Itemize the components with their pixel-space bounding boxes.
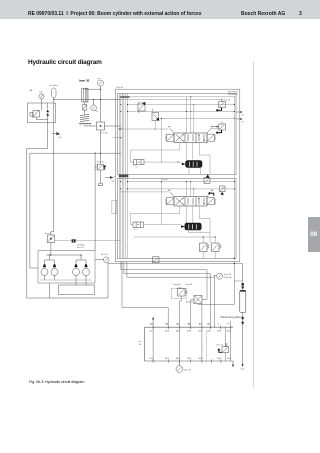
tank header line (108, 263, 243, 265)
check valve CV2 (152, 109, 159, 121)
svg-text:Proj 06: Proj 06 (116, 86, 124, 89)
pump 2 (51, 260, 58, 280)
gauge feed line (85, 88, 101, 90)
directional valve V3 (174, 197, 207, 207)
svg-text:T: T (218, 324, 220, 326)
svg-text:Item 30: Item 30 (79, 79, 90, 83)
svg-text:50%: 50% (187, 331, 191, 333)
Proj 06 tag box (229, 91, 238, 95)
oil drain arrow (235, 281, 245, 290)
V1 right operator (207, 134, 216, 141)
tank arrow right (232, 361, 234, 367)
branch line A section1 (128, 104, 235, 106)
check valve CV1 (138, 102, 146, 113)
port arrows right edge (236, 111, 244, 122)
pump inner rail (46, 254, 82, 255)
branch line B section1 (128, 111, 235, 113)
LS drop line sec2 (161, 182, 163, 225)
V3 pilot lines (168, 190, 213, 197)
pump valve inside power box (30, 103, 48, 120)
link E2 to V4 (144, 224, 182, 226)
return line left (30, 153, 38, 268)
orifice block E2 (133, 222, 144, 230)
V1 pilot lines (168, 126, 213, 133)
chapter tab 06 (308, 217, 320, 252)
branch line A section2 (128, 181, 235, 183)
level indicator circle (91, 100, 99, 112)
svg-text:pm: pm (98, 78, 101, 80)
gauge K (214, 273, 232, 279)
figure right rule (252, 62, 254, 389)
svg-text:Item 25: Item 25 (101, 253, 109, 256)
feed drop to valve V1 (185, 97, 187, 133)
svg-text:4a: 4a (30, 89, 33, 92)
pm gauge (98, 78, 104, 119)
standby relief valve R5 (95, 153, 106, 185)
svg-text:Proj 06: Proj 06 (101, 132, 109, 135)
P rail2 section1 (119, 99, 223, 100)
isolator plate (186, 296, 202, 304)
right drop to manifold (198, 262, 234, 305)
svg-text:Item 40: Item 40 (174, 283, 182, 286)
feed drop to valve V3 (185, 182, 187, 197)
V3 right operator (207, 198, 216, 205)
bottom relief valve (217, 343, 229, 353)
junction dots (53, 89, 235, 260)
svg-text:Item 30: Item 30 (224, 273, 232, 276)
brake valve H (212, 237, 222, 259)
svg-text:Item 35: Item 35 (97, 160, 105, 163)
brake valve G (200, 237, 210, 259)
V3 left operator (165, 198, 174, 205)
drain line (84, 125, 121, 127)
pump pair shafts (45, 255, 87, 260)
svg-text:50%: 50% (207, 331, 211, 333)
LS drop line (161, 118, 163, 163)
flow arrow marker (52, 132, 62, 138)
port link lines sec1 (130, 150, 210, 174)
pm line lower (100, 130, 102, 153)
bottom gauge (176, 361, 192, 372)
A-line section2 (134, 236, 215, 238)
svg-text:50: 50 (139, 344, 142, 346)
svg-text:Oil filling: Oil filling (77, 244, 85, 246)
section boundary band (119, 175, 129, 178)
V1 left operator (165, 134, 174, 141)
shutoff valve S1 (97, 119, 109, 135)
bus port band (120, 96, 129, 98)
pilot line section1 (119, 128, 168, 130)
oil filling labels (77, 244, 85, 249)
relief valve RV3 (220, 186, 226, 195)
measuring glass riser (234, 263, 243, 285)
svg-text:Measuring glass: Measuring glass (221, 315, 242, 319)
measuring glass (221, 290, 246, 369)
valve feed drops (155, 97, 194, 133)
V1 port stems (180, 143, 200, 160)
pump 3 (73, 260, 80, 280)
check valve in power box (46, 103, 49, 123)
suction line to pumps (50, 242, 52, 255)
counterbalance valve V4 (181, 223, 210, 233)
drain stubs (50, 280, 87, 298)
up arrow port (152, 317, 154, 327)
pump return riser (95, 153, 96, 251)
link E1 to V2 (144, 161, 182, 163)
svg-text:Oil drain: Oil drain (235, 281, 242, 283)
V3 port stems (180, 206, 200, 223)
lowering valve dashed box (171, 288, 187, 298)
manifold rail (145, 327, 234, 361)
main pressure drop line (51, 123, 54, 236)
right pilot link (211, 127, 220, 129)
pilot line section2 (119, 191, 168, 193)
svg-text:P: P (227, 324, 229, 326)
section 2 box (117, 179, 236, 259)
Item 30 filter (79, 79, 90, 115)
svg-text:50%: 50% (227, 358, 231, 360)
svg-text:Proj 05: Proj 05 (186, 283, 193, 286)
pump 4 (83, 260, 90, 280)
power unit box (28, 103, 56, 123)
pilot supply line (54, 99, 121, 101)
section 1 box (117, 94, 236, 175)
svg-text:p0=10bar: p0=10bar (50, 85, 59, 87)
pressure gauge M1 (39, 92, 44, 103)
supply line to valve block (30, 152, 121, 154)
svg-text:Proj 06: Proj 06 (229, 93, 236, 95)
bus lines (119, 93, 127, 258)
drop line T2 (124, 262, 210, 328)
percent labels top (150, 331, 232, 333)
relief valve RV1 (216, 99, 231, 112)
oil fill line (55, 239, 121, 242)
svg-text:Item 20: Item 20 (45, 232, 53, 235)
svg-text:50%: 50% (217, 331, 221, 333)
manifold droppers (153, 321, 230, 362)
svg-text:Item 05: Item 05 (186, 301, 194, 304)
page title (28, 59, 102, 66)
counterbalance valve V2 (178, 161, 203, 175)
pump 1 (41, 260, 48, 280)
svg-text:50%: 50% (165, 331, 169, 333)
orifice block E1 (134, 160, 145, 168)
accumulator (50, 85, 59, 103)
pump group box (38, 251, 95, 284)
port link lines sec2 (130, 214, 210, 244)
drop line T4 (122, 262, 168, 328)
lowering valve (174, 283, 193, 296)
directional valve V1 (174, 133, 207, 143)
valve block outer box (115, 89, 240, 261)
header bar (0, 0, 320, 19)
svg-text:0-60 bar: 0-60 bar (224, 276, 232, 279)
svg-text:Proj 06: Proj 06 (224, 100, 231, 102)
spring symbol (79, 115, 91, 126)
svg-text:4x: 4x (139, 341, 142, 343)
svg-text:Item 10: Item 10 (217, 344, 225, 347)
bottom rail ticks (153, 360, 221, 363)
accumulator drop inside box (53, 103, 55, 123)
pump case line (40, 279, 92, 281)
percent labels bottom (150, 358, 232, 360)
edge connector plate (112, 200, 117, 213)
right bus line (234, 97, 235, 259)
cluster links (179, 296, 207, 327)
pump gauge L (95, 253, 109, 263)
valve feed drops sec2 (191, 182, 194, 197)
svg-text:Proj 06: Proj 06 (161, 178, 168, 181)
branch line B section2 (128, 188, 235, 190)
svg-text:Item 15: Item 15 (77, 246, 85, 249)
bottom edge valve (153, 257, 160, 263)
pump sub tank (59, 285, 95, 295)
drop line T1 (121, 262, 207, 300)
check valve CV3 (204, 174, 210, 183)
manifold left label (139, 341, 142, 346)
tank enclosure line (27, 123, 108, 299)
svg-text:50%: 50% (165, 358, 169, 360)
figure caption (29, 379, 84, 384)
manifold port ticks (153, 326, 230, 330)
port labels (150, 323, 229, 326)
branch line C section1 (159, 117, 235, 119)
P rail section1 (119, 96, 236, 98)
left edge stub (113, 137, 122, 138)
shutoff valve S2 (45, 232, 55, 242)
svg-text:Item 30: Item 30 (184, 369, 192, 372)
svg-text:psp: psp (40, 92, 44, 94)
flow arrow to block (105, 176, 116, 181)
drop line T3 (127, 262, 214, 328)
relief valve RV2 (212, 122, 225, 135)
flow arrow sec2 (208, 192, 214, 196)
